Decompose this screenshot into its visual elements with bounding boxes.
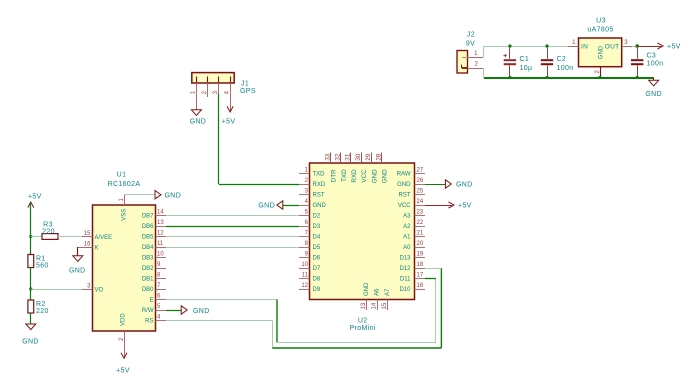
svg-text:29: 29 xyxy=(365,153,372,161)
svg-text:D5: D5 xyxy=(313,245,321,251)
wire junction down to R2 xyxy=(30,289,32,300)
wire U2 pin26 to GND flag xyxy=(425,184,445,186)
svg-text:DB1: DB1 xyxy=(142,277,154,283)
LCD module U1 RC1602A xyxy=(82,172,166,342)
wire R1 to VO junction xyxy=(30,268,32,290)
wire J1 pin3 down (GPS serial) xyxy=(218,93,220,184)
U2 pin 9 (D6) xyxy=(299,257,310,259)
svg-text:U1: U1 xyxy=(117,172,127,179)
U2 pin 1 (TXD) xyxy=(299,173,310,175)
svg-text:DTR: DTR xyxy=(331,169,338,182)
U2 pin 2 (RXD) xyxy=(299,184,310,186)
U2 pin 26 (GND) xyxy=(415,184,426,186)
svg-text:OUT: OUT xyxy=(605,43,620,50)
wire U1 VDD down to +5V xyxy=(124,342,126,358)
ground symbol GND (R2) xyxy=(22,324,39,345)
GND flag at U1 R/W xyxy=(181,306,209,315)
U2 pin 27 (RAW) xyxy=(415,173,426,175)
U2 pin 14 (A6) xyxy=(377,300,379,311)
wire VO junction to U1 pin3 xyxy=(31,289,82,291)
wire U1 VSS to GND flag xyxy=(124,194,155,196)
svg-text:DB4: DB4 xyxy=(142,245,154,251)
svg-text:DB0: DB0 xyxy=(142,287,154,293)
svg-text:27: 27 xyxy=(417,168,424,174)
svg-text:15: 15 xyxy=(382,302,388,309)
svg-text:220: 220 xyxy=(36,308,49,315)
wire to U2 D11 xyxy=(425,278,436,280)
ground symbol GND (U1 pin16) xyxy=(69,256,86,274)
U2 pin 28 (GND) xyxy=(381,153,383,164)
wire J2 pin2 down to ground rail xyxy=(483,68,485,78)
junction dot C3 bottom xyxy=(636,76,639,79)
svg-text:10µ: 10µ xyxy=(520,65,533,72)
GND flag at U1 VSS xyxy=(155,191,181,200)
U2 pin 24 (VCC) xyxy=(415,205,426,207)
wire U1 E horizontal xyxy=(166,299,277,301)
svg-text:D8: D8 xyxy=(313,277,321,283)
svg-text:12: 12 xyxy=(301,283,308,289)
resistor R3 220 xyxy=(42,221,58,239)
U1 pin 4 (RS) xyxy=(156,320,167,322)
svg-text:+5V: +5V xyxy=(28,193,42,200)
svg-text:DB5: DB5 xyxy=(142,235,154,241)
svg-text:A3: A3 xyxy=(403,214,411,220)
wire junction to R3 xyxy=(31,236,42,238)
svg-text:30: 30 xyxy=(355,153,362,161)
GND flag at U2 pin4 xyxy=(258,201,282,210)
U2 pin 4 (GND) xyxy=(299,205,310,207)
svg-text:32: 32 xyxy=(335,153,342,161)
junction dot C1 top xyxy=(508,44,511,47)
svg-text:R/W: R/W xyxy=(142,308,154,314)
svg-text:RXD: RXD xyxy=(313,182,326,188)
svg-text:19: 19 xyxy=(417,252,424,258)
svg-text:14: 14 xyxy=(157,210,164,216)
+5V supply arrow at U3 output xyxy=(637,43,681,51)
svg-text:16: 16 xyxy=(84,242,91,248)
svg-text:11: 11 xyxy=(302,273,309,279)
+5V supply arrow at U1 VDD xyxy=(116,353,130,375)
U2 pin 15 (A7) xyxy=(387,300,389,311)
GND flag at U2 pin26 xyxy=(445,180,472,189)
svg-text:A/VEE: A/VEE xyxy=(95,235,113,241)
svg-text:GND: GND xyxy=(193,308,210,315)
U2 pin 8 (D5) xyxy=(299,247,310,249)
svg-text:J2: J2 xyxy=(467,32,475,39)
svg-text:R1: R1 xyxy=(36,255,46,262)
svg-text:D11: D11 xyxy=(400,277,411,283)
+5V supply arrow at U2 VCC xyxy=(425,202,472,210)
J1 pin 4 xyxy=(230,83,232,94)
capacitor C1 10u xyxy=(504,46,533,78)
wire DB6 to D3 xyxy=(166,226,299,228)
svg-text:D4: D4 xyxy=(313,235,321,241)
svg-text:10: 10 xyxy=(301,262,308,268)
wire E net bottom horizontal xyxy=(277,342,436,344)
J2 pin 2 xyxy=(468,68,484,70)
U1 pin 12 (DB5) xyxy=(156,236,167,238)
U2 pin 5 (D2) xyxy=(299,215,310,217)
wire DB4 to D5 xyxy=(166,247,299,249)
U1 pin 5 (R/W) xyxy=(156,310,167,312)
junction dot U3 GND pin at rail xyxy=(598,76,601,79)
svg-text:D3: D3 xyxy=(313,224,321,230)
svg-text:J1: J1 xyxy=(241,80,249,87)
svg-text:D7: D7 xyxy=(313,266,321,272)
U1 pin 7 (DB0) xyxy=(156,289,167,291)
svg-text:16: 16 xyxy=(417,283,424,289)
U1 pin 11 (DB4) xyxy=(156,247,167,249)
svg-text:15: 15 xyxy=(84,231,91,237)
svg-text:D2: D2 xyxy=(313,214,321,220)
U2 pin 6 (D3) xyxy=(299,226,310,228)
svg-text:DB7: DB7 xyxy=(142,214,154,220)
junction dot C2 top xyxy=(545,44,548,47)
svg-text:IN: IN xyxy=(581,43,588,50)
+5V supply arrow at J1 pin4 xyxy=(222,106,236,125)
svg-text:TXD: TXD xyxy=(313,172,326,178)
svg-text:RAW: RAW xyxy=(397,172,411,178)
svg-text:+5V: +5V xyxy=(458,203,472,210)
svg-text:22: 22 xyxy=(417,220,424,226)
junction dot +5V/C3 xyxy=(635,44,639,48)
svg-text:GND: GND xyxy=(397,182,411,188)
svg-text:25: 25 xyxy=(417,189,424,195)
svg-text:C2: C2 xyxy=(557,56,567,63)
U1 pin 9 (DB2) xyxy=(156,268,167,270)
U1 pin 2 (VDD) xyxy=(124,331,126,342)
svg-text:GPS: GPS xyxy=(240,88,256,95)
svg-text:D10: D10 xyxy=(399,287,411,293)
svg-text:VCC: VCC xyxy=(361,169,368,183)
svg-text:RC1602A: RC1602A xyxy=(108,181,141,188)
U2 pin 16 (D10) xyxy=(415,289,426,291)
svg-text:12: 12 xyxy=(157,231,164,237)
svg-text:100n: 100n xyxy=(557,65,574,72)
svg-text:RXD: RXD xyxy=(351,169,358,183)
U2 pin 32 (TXD) xyxy=(340,153,342,164)
svg-text:21: 21 xyxy=(417,231,424,237)
svg-text:K: K xyxy=(95,245,99,251)
U2 pin 12 (D9) xyxy=(299,289,310,291)
svg-text:26: 26 xyxy=(417,178,424,184)
U2 pin 25 (RST) xyxy=(415,194,426,196)
svg-text:+5V: +5V xyxy=(222,119,236,126)
U2 pin 19 (D13) xyxy=(415,257,426,259)
voltage regulator U3 uA7805 xyxy=(568,18,632,78)
wire U1 pin16 to ground xyxy=(78,247,82,249)
svg-text:A0: A0 xyxy=(403,245,411,251)
svg-text:RS: RS xyxy=(145,319,153,325)
resistor R2 220 xyxy=(28,300,49,315)
J1 pin 3 xyxy=(218,83,220,94)
svg-text:R2: R2 xyxy=(36,301,46,308)
U2 pin 30 (VCC) xyxy=(361,153,363,164)
U3 pin 2 (GND) xyxy=(600,67,602,78)
svg-text:VDD: VDD xyxy=(121,313,127,326)
svg-text:17: 17 xyxy=(417,273,424,279)
U2 pin 33 (DTR) xyxy=(330,153,332,164)
svg-text:A6: A6 xyxy=(375,288,381,296)
wire RS net vertical xyxy=(272,321,274,349)
wire U1 R/W to GND flag xyxy=(166,310,181,312)
U2 pin 10 (D7) xyxy=(299,268,310,270)
svg-text:+5V: +5V xyxy=(667,44,681,51)
U2 pin 23 (A3) xyxy=(415,215,426,217)
wire bottom ground rail xyxy=(484,77,654,79)
svg-text:13: 13 xyxy=(157,220,164,226)
U2 pin 20 (A0) xyxy=(415,247,426,249)
svg-text:RST: RST xyxy=(313,193,325,199)
svg-text:20: 20 xyxy=(417,241,424,247)
U1 pin 6 (E) xyxy=(156,299,167,301)
svg-text:GND: GND xyxy=(645,91,662,98)
microcontroller U2 ProMini xyxy=(299,153,425,332)
svg-text:D9: D9 xyxy=(313,287,321,293)
svg-text:GND: GND xyxy=(258,203,275,210)
wire R3 to U1 pin15 xyxy=(58,236,82,238)
connector J2 (9V input) xyxy=(457,32,483,74)
svg-text:31: 31 xyxy=(345,153,352,161)
svg-text:GND: GND xyxy=(22,338,39,345)
svg-text:DB2: DB2 xyxy=(142,266,154,272)
svg-text:TXD: TXD xyxy=(341,169,348,182)
svg-text:13: 13 xyxy=(361,302,367,309)
wire E net vertical xyxy=(276,300,278,343)
svg-text:D6: D6 xyxy=(313,256,321,262)
wire top rail (9V net) xyxy=(484,46,568,48)
svg-text:GND: GND xyxy=(190,119,207,126)
J2 pin 1 xyxy=(468,57,484,59)
svg-text:33: 33 xyxy=(324,153,331,161)
wire R2 to ground xyxy=(30,313,32,324)
wire E net right vertical xyxy=(435,279,437,343)
junction dot C2 bottom xyxy=(545,76,548,79)
svg-text:28: 28 xyxy=(375,153,382,161)
U2 pin 18 (D12) xyxy=(415,268,426,270)
svg-text:DB3: DB3 xyxy=(142,256,154,262)
svg-text:GND: GND xyxy=(382,169,389,183)
U3 pin 3 (OUT) xyxy=(622,46,633,48)
wire U3 OUT to +5V xyxy=(632,46,637,48)
svg-text:RST: RST xyxy=(399,193,411,199)
svg-text:R3: R3 xyxy=(43,221,53,228)
svg-text:+5V: +5V xyxy=(116,368,130,375)
svg-text:D12: D12 xyxy=(399,266,411,272)
U2 pin 11 (D8) xyxy=(299,278,310,280)
svg-text:A7: A7 xyxy=(385,288,391,296)
wire U1 RS horizontal xyxy=(166,320,272,322)
svg-text:24: 24 xyxy=(417,199,424,205)
U1 pin 13 (DB6) xyxy=(156,226,167,228)
capacitor C2 100n xyxy=(541,46,574,78)
U1 pin 16 (K) xyxy=(82,247,93,249)
wire J1 pin4 to +5V xyxy=(230,93,232,111)
J1 pin 2 xyxy=(207,83,209,97)
ground symbol GND (power rail) xyxy=(645,78,662,99)
svg-text:U3: U3 xyxy=(596,18,606,25)
junction dot C1 bottom xyxy=(508,76,511,79)
wire GPS serial to U2 RXD xyxy=(219,184,299,186)
U1 pin 1 (VSS) xyxy=(124,195,126,205)
svg-text:ProMini: ProMini xyxy=(350,325,376,332)
svg-text:10: 10 xyxy=(157,252,164,258)
svg-text:560: 560 xyxy=(36,262,49,269)
U2 pin 29 (GND) xyxy=(371,153,373,164)
resistor R1 560 xyxy=(28,255,49,270)
svg-text:220: 220 xyxy=(42,228,55,235)
svg-text:C1: C1 xyxy=(520,56,530,63)
wire J2 pin1 to top rail xyxy=(483,46,485,58)
junction dot R3 xyxy=(29,235,32,238)
U1 pin 10 (DB3) xyxy=(156,257,167,259)
wire J1 pin1 to ground xyxy=(196,93,198,109)
U3 pin 1 (IN) xyxy=(568,46,579,48)
svg-text:A1: A1 xyxy=(403,235,411,241)
U1 pin 3 (VO) xyxy=(82,289,93,291)
svg-text:D13: D13 xyxy=(399,256,411,262)
wire to U2 D12 xyxy=(425,268,441,270)
U2 pin 7 (D4) xyxy=(299,236,310,238)
U2 pin 31 (RXD) xyxy=(350,153,352,164)
svg-text:VSS: VSS xyxy=(121,209,127,221)
svg-text:GND: GND xyxy=(165,192,182,199)
svg-text:E: E xyxy=(149,298,153,304)
svg-text:9V: 9V xyxy=(466,40,475,47)
U2 pin 21 (A1) xyxy=(415,236,426,238)
wire RS net bottom horizontal xyxy=(272,347,441,349)
connector J1 GPS xyxy=(191,73,256,97)
svg-text:100n: 100n xyxy=(647,61,664,68)
svg-text:A2: A2 xyxy=(403,224,411,230)
svg-text:VCC: VCC xyxy=(398,203,411,209)
svg-text:DB6: DB6 xyxy=(142,224,154,230)
svg-text:11: 11 xyxy=(157,241,164,247)
J1 pin 1 xyxy=(196,83,198,94)
wire U2 pin4 to GND flag xyxy=(283,205,299,207)
wire junction down to R1 xyxy=(30,237,32,255)
ground symbol GND (J1 pin1) xyxy=(190,110,207,126)
svg-text:GND: GND xyxy=(69,267,86,274)
U1 pin 8 (DB1) xyxy=(156,278,167,280)
svg-text:23: 23 xyxy=(417,210,424,216)
wire +5V down to R3 junction xyxy=(30,202,32,237)
wire RS net right vertical xyxy=(440,268,442,348)
U2 pin 22 (A2) xyxy=(415,226,426,228)
svg-text:GND: GND xyxy=(364,282,370,296)
U1 pin 15 (A/VEE) xyxy=(82,236,93,238)
U2 pin 3 (RST) xyxy=(299,194,310,196)
svg-text:U2: U2 xyxy=(358,317,368,324)
wire DB5 to D4 xyxy=(166,236,299,238)
U2 pin 17 (D11) xyxy=(415,278,426,280)
U1 pin 14 (DB7) xyxy=(156,215,167,217)
svg-text:uA7805: uA7805 xyxy=(587,27,613,34)
svg-text:C3: C3 xyxy=(647,52,657,59)
U2 pin 13 (GND) xyxy=(366,300,368,311)
svg-text:GND: GND xyxy=(313,203,327,209)
svg-text:GND: GND xyxy=(456,182,473,189)
svg-text:14: 14 xyxy=(372,302,378,309)
capacitor C3 100n xyxy=(631,46,663,78)
svg-text:GND: GND xyxy=(371,169,378,183)
junction dot VO xyxy=(29,287,32,290)
svg-text:VO: VO xyxy=(95,287,104,293)
+5V supply arrow (contrast network) xyxy=(28,193,42,207)
svg-text:18: 18 xyxy=(417,262,424,268)
svg-text:GND: GND xyxy=(598,45,604,59)
wire DB7 to D2 xyxy=(166,215,299,217)
